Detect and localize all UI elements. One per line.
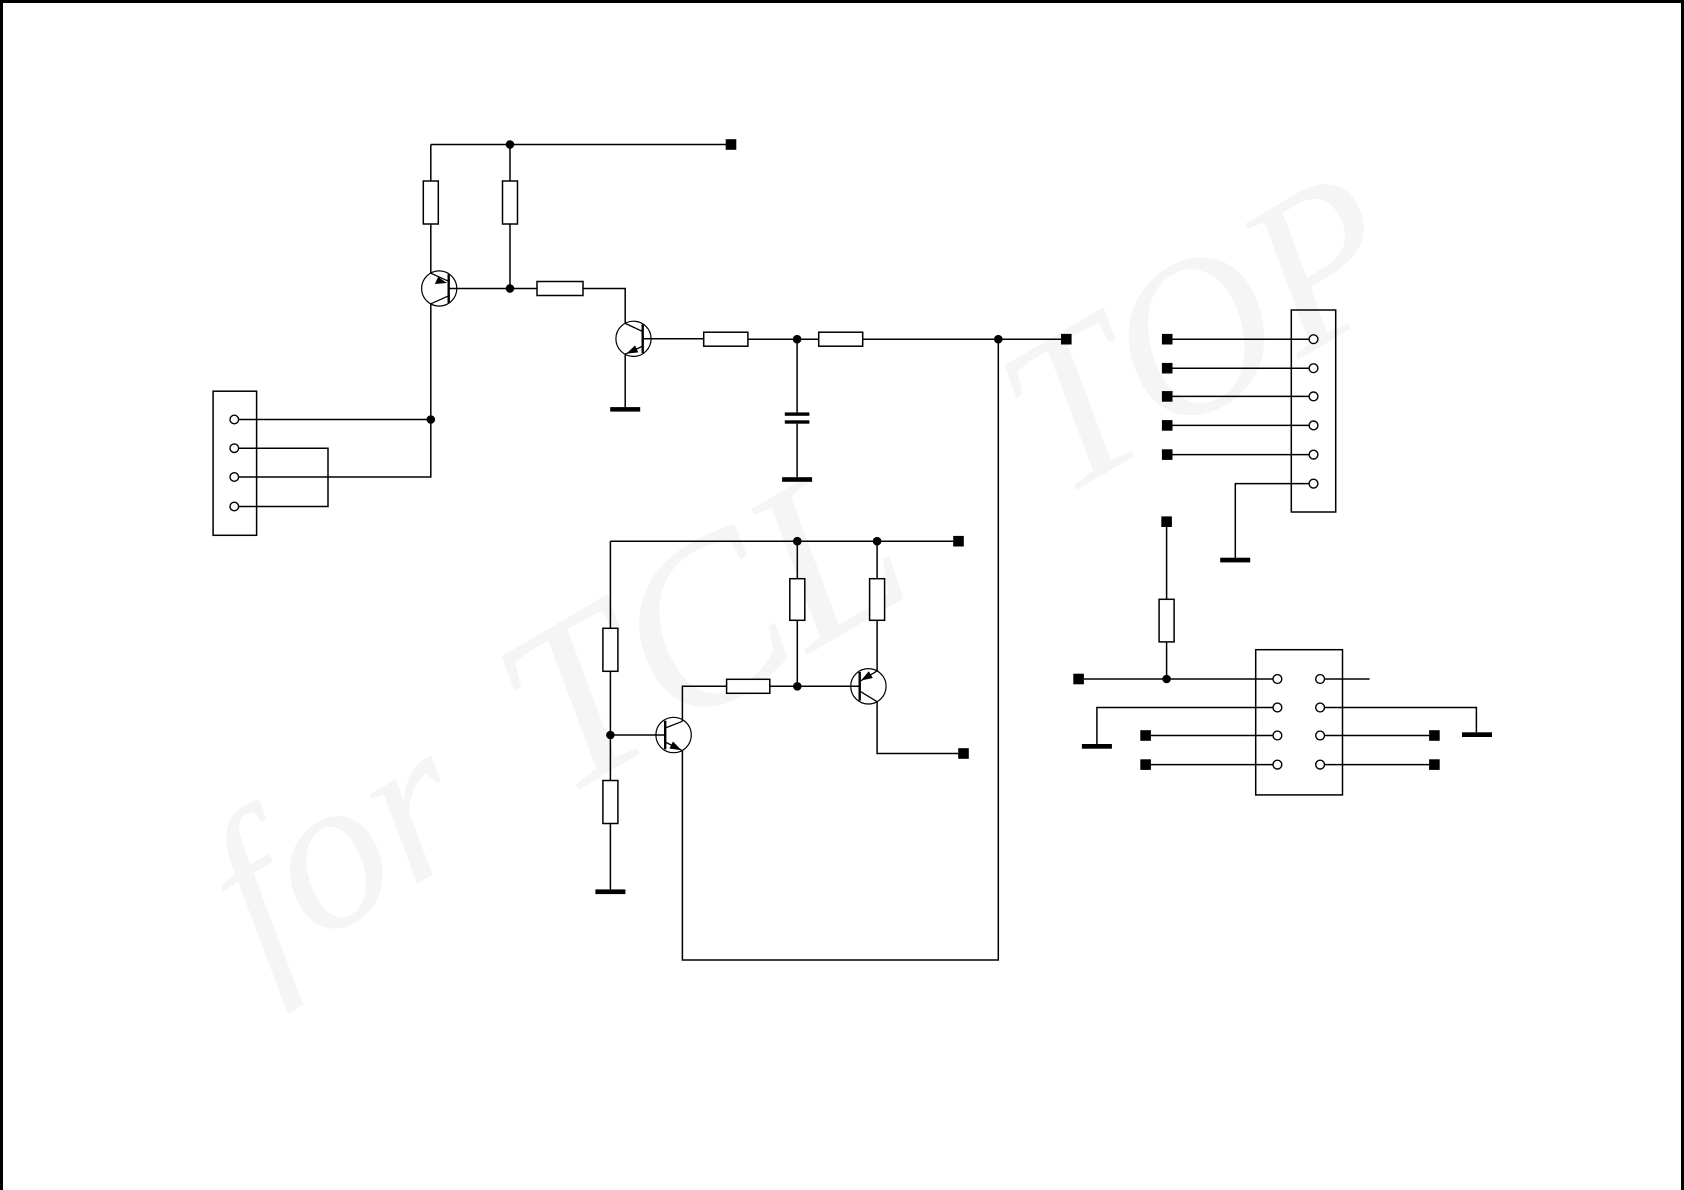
transistor Q3	[656, 717, 691, 752]
ground below C1	[782, 477, 812, 482]
terminal square J2 pin 3	[1162, 391, 1173, 402]
wire square to J3 pin L1 through node F	[1084, 678, 1273, 680]
wire R6 to node D	[609, 671, 611, 735]
wire J3 pin L2 to ground	[1097, 708, 1273, 745]
wire rail to R9	[796, 541, 798, 579]
wire Q1 base to node B	[449, 288, 537, 290]
wire capacitor C1 bottom to ground	[796, 424, 798, 478]
terminal square J3 pin L3	[1140, 730, 1151, 741]
wire capacitor C1 top	[796, 339, 798, 412]
resistor R9	[790, 579, 805, 621]
terminal square J3 pin R4	[1429, 759, 1440, 770]
wire J2 pin 5	[1172, 454, 1309, 456]
node A junction	[427, 415, 436, 424]
wire top rail	[431, 144, 731, 146]
wire R10 to Q4 emitter	[876, 620, 878, 671]
wire lower rail down to R6	[609, 541, 611, 628]
wire node A to pin 1 of J1	[239, 419, 431, 421]
terminal square J2 pin 4	[1162, 420, 1173, 431]
wire R7 to ground	[609, 824, 611, 890]
node C junction	[994, 335, 1003, 344]
resistor R2	[503, 181, 518, 224]
wire J2 pin 3	[1172, 395, 1309, 397]
wire R8 to node E to Q4 base	[770, 685, 860, 687]
wire R1 bottom to Q1	[430, 224, 432, 273]
connector J3	[1256, 650, 1343, 795]
wire Q2 emitter to ground	[624, 354, 626, 407]
wire node D to R7	[609, 735, 611, 781]
transistor Q1	[422, 271, 457, 306]
capacitor C1	[785, 412, 810, 423]
ground J3 pin L2	[1082, 744, 1112, 749]
wire J3 pin R3 to square	[1325, 735, 1430, 737]
terminal square node F left	[1073, 674, 1084, 685]
ground J2 pin 6	[1220, 558, 1250, 563]
transistor Q4	[851, 669, 886, 704]
resistor R3	[537, 282, 583, 296]
wire square to R11	[1166, 527, 1168, 599]
connector J2	[1291, 310, 1335, 512]
wire node D to Q3 base	[610, 734, 665, 736]
wire long feedback from node C down left to Q3 emitter	[682, 339, 998, 960]
wire R9 to node E	[796, 620, 798, 686]
wire J2 pin 2	[1172, 367, 1309, 369]
wire rail to R10	[876, 541, 878, 579]
resistor R11	[1159, 599, 1174, 642]
transistor Q2	[616, 321, 651, 356]
wire pin 2 to pin 4 of J1	[239, 448, 328, 506]
wire J3 pin L4 to square	[1151, 764, 1273, 766]
wire J3 pin R2 to ground	[1325, 708, 1477, 733]
terminal square above R11	[1161, 516, 1172, 527]
wire J2 pin 6 to ground	[1235, 484, 1309, 558]
wire J2 pin 4	[1172, 424, 1309, 426]
resistor R7	[603, 781, 618, 824]
terminal square top rail	[726, 139, 737, 150]
wire node A down and left to pin 3 of J1	[239, 420, 431, 478]
terminal square J3 pin R3	[1429, 730, 1440, 741]
wire Q4 collector down right to square	[877, 702, 958, 754]
terminal square node C output	[1061, 334, 1072, 345]
resistor R1	[423, 181, 438, 224]
terminal square J3 pin L4	[1140, 759, 1151, 770]
wire J3 pin R4 to square	[1325, 764, 1430, 766]
wire J3 pin L3 to square	[1151, 735, 1273, 737]
wire R2 top	[509, 145, 511, 182]
ground below R7	[595, 889, 625, 894]
terminal square J2 pin 1	[1162, 334, 1173, 345]
wire Q3 collector up to R8	[682, 686, 726, 721]
wire J2 pin 1	[1172, 338, 1309, 340]
wire Q1 collector down to node A	[430, 304, 432, 420]
resistor R10	[870, 579, 885, 621]
terminal square J2 pin 5	[1162, 449, 1173, 460]
wire R4 to R5	[748, 338, 819, 340]
terminal square lower rail	[953, 536, 964, 547]
ground J3 pin R2	[1462, 732, 1492, 737]
watermark "for TCL TOP"	[163, 122, 1440, 1016]
terminal square Q4 collector	[958, 748, 969, 759]
wire R2 bottom to node B	[509, 224, 511, 289]
wire R5 to output square	[863, 338, 1061, 340]
resistor R5	[819, 332, 863, 346]
node junction top rail	[506, 140, 515, 149]
node junction lower rail right	[873, 537, 882, 546]
node F junction	[1162, 675, 1171, 684]
node D junction	[606, 731, 615, 740]
resistor R8	[727, 679, 770, 693]
node B junction	[506, 284, 515, 293]
resistor R4	[704, 332, 748, 346]
ground below Q2	[610, 407, 640, 412]
terminal square J2 pin 2	[1162, 363, 1173, 374]
wire R3 to Q2	[583, 289, 625, 324]
node junction at C1 top	[793, 335, 802, 344]
wire R1 top	[430, 145, 432, 182]
wire Q2 base to R4	[643, 338, 704, 340]
node E junction	[793, 682, 802, 691]
wire lower rail	[610, 540, 953, 542]
resistor R6	[603, 628, 618, 671]
node junction lower rail left	[793, 537, 802, 546]
connector J1	[213, 391, 257, 535]
wire R11 to node F	[1166, 642, 1168, 679]
wire J3 pin R1 stub	[1325, 678, 1370, 680]
